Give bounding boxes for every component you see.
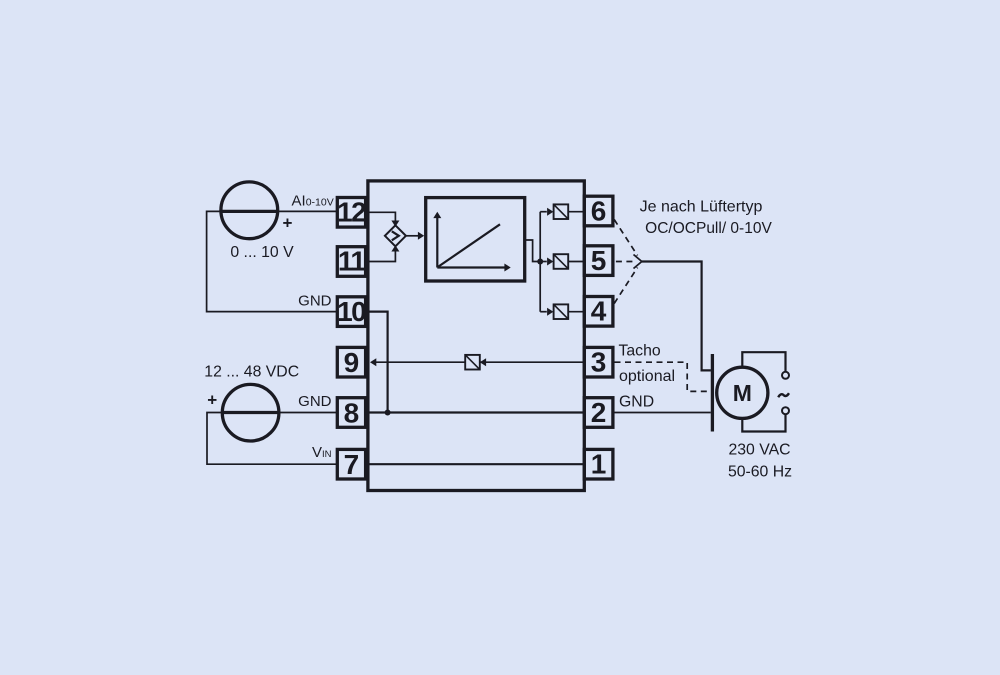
svg-text:5: 5 <box>591 245 607 276</box>
svg-text:11: 11 <box>338 246 366 277</box>
svg-text:8: 8 <box>344 397 360 428</box>
wire bus to optocoupler O4 <box>540 311 547 313</box>
optocoupler OT tacho <box>465 355 480 370</box>
wire terminal 11 to comparator <box>369 250 395 261</box>
terminal 7 <box>337 449 365 480</box>
svg-text:+: + <box>283 213 293 232</box>
wire O5 to terminal 5 <box>568 261 584 263</box>
ramp x-axis <box>437 266 504 268</box>
terminal 5 <box>584 245 613 276</box>
AC terminal bottom <box>782 407 789 414</box>
svg-text:GND: GND <box>298 293 332 310</box>
terminal 2 <box>584 397 613 428</box>
optocoupler O6 <box>554 204 569 219</box>
dashed wire terminal 3 tacho to motor <box>615 362 711 391</box>
svg-text:6: 6 <box>591 195 607 226</box>
motor M1 <box>717 367 768 418</box>
svg-text:AI0-10V: AI0-10V <box>292 192 334 209</box>
wire V2 to terminal 7 VIN <box>207 413 337 465</box>
ramp curve <box>438 224 500 267</box>
wire terminal 12 to comparator <box>369 212 395 221</box>
svg-text:optional: optional <box>619 368 675 385</box>
svg-text:Tacho: Tacho <box>619 343 661 360</box>
label ~ AC <box>778 393 789 397</box>
svg-text:0 ... 10 V: 0 ... 10 V <box>230 244 294 261</box>
svg-text:+: + <box>207 391 217 410</box>
svg-text:10: 10 <box>337 296 366 327</box>
wire bus to optocoupler O6 <box>540 211 547 213</box>
wire terminal 3 to optocoupler OT <box>481 361 584 363</box>
ramp y-axis <box>436 217 438 268</box>
AC terminal top <box>782 372 789 379</box>
wire terminal 7 to terminal 1 internal rail <box>366 463 584 465</box>
dashed wire terminal 4 to output select <box>614 268 637 304</box>
terminal 12 <box>337 197 366 228</box>
controller block U1 <box>368 181 584 491</box>
dashed wire terminal 5 to output select <box>616 261 633 263</box>
svg-text:9: 9 <box>344 347 360 378</box>
svg-text:4: 4 <box>591 296 607 327</box>
terminal 11 <box>337 246 365 277</box>
wire bus to optocoupler O5 <box>540 261 547 263</box>
svg-text:VIN: VIN <box>312 444 332 461</box>
terminal 3 <box>584 347 613 378</box>
terminal 4 <box>584 296 613 327</box>
comparator U2 <box>385 225 406 246</box>
node junction GND rail <box>385 410 391 416</box>
wire V2 to terminal 8 GND <box>279 412 337 414</box>
wire comparator to ramp block <box>406 235 419 237</box>
svg-text:GND: GND <box>298 393 332 410</box>
wire O6 to terminal 6 <box>568 211 584 213</box>
output select arrowhead <box>634 255 642 269</box>
dashed wire terminal 6 to output select <box>614 220 637 256</box>
wire motor to AC terminal top <box>742 352 785 372</box>
terminal 10 <box>337 296 366 327</box>
voltage source V1 0...10V <box>221 182 278 239</box>
motor mounting bar <box>711 354 714 432</box>
wire output select to motor <box>642 262 711 371</box>
wire ramp block output <box>525 240 541 262</box>
optocoupler O4 <box>554 304 569 319</box>
wire terminal 2 GND to motor <box>613 412 711 414</box>
wire terminal 8 to terminal 2 internal GND rail <box>366 411 584 413</box>
svg-text:7: 7 <box>344 449 360 480</box>
wire motor to AC terminal bottom <box>742 414 785 431</box>
svg-text:3: 3 <box>591 347 607 378</box>
wire O4 to terminal 4 <box>568 311 584 313</box>
wire terminal 10 branch to GND rail <box>369 312 388 413</box>
svg-text:1: 1 <box>591 449 607 480</box>
wire V1 to terminal 12 <box>278 210 338 212</box>
terminal 6 <box>584 195 613 226</box>
optocoupler O5 <box>554 254 569 269</box>
node junction on output bus <box>537 259 543 265</box>
svg-text:12 ... 48 VDC: 12 ... 48 VDC <box>204 363 299 380</box>
svg-text:2: 2 <box>591 397 607 428</box>
svg-text:Je nach Lüftertyp: Je nach Lüftertyp <box>640 198 763 215</box>
terminal 9 <box>337 347 365 378</box>
svg-text:OC/OCPull/ 0-10V: OC/OCPull/ 0-10V <box>645 220 772 237</box>
wire V1 to terminal 10 GND <box>207 211 338 311</box>
wire optocoupler OT to terminal 9 <box>376 361 466 363</box>
terminal 8 <box>337 397 365 428</box>
ramp characteristic block U3 <box>426 198 525 281</box>
svg-text:GND: GND <box>619 393 654 410</box>
voltage source V2 12...48 VDC <box>222 384 279 441</box>
output bus vertical <box>539 212 541 312</box>
svg-text:M: M <box>733 380 752 406</box>
svg-text:12: 12 <box>337 197 366 228</box>
terminal 1 <box>584 449 613 480</box>
svg-text:230 VAC: 230 VAC <box>728 441 790 458</box>
svg-text:50-60 Hz: 50-60 Hz <box>728 464 792 481</box>
